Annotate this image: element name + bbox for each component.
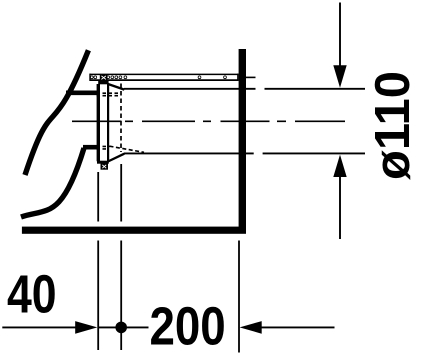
hidden upper edge dashed 2 bbox=[97, 95, 121, 97]
extension line outlet center lower bbox=[120, 241, 122, 351]
connector upper cone line bbox=[108, 84, 124, 90]
rail left end cap bbox=[89, 74, 91, 81]
hidden socket vertical dashed bbox=[120, 84, 122, 153]
extension line wall face bbox=[238, 241, 240, 353]
dia dimension lower arrow line bbox=[339, 177, 341, 240]
extension line outlet left upper bbox=[97, 172, 99, 222]
dim line dot to 200 text bbox=[127, 326, 149, 328]
svg-text:200: 200 bbox=[149, 297, 225, 357]
extension line outlet center upper bbox=[120, 164, 122, 222]
toilet trap curve bbox=[21, 148, 84, 217]
arrowhead 40 bbox=[75, 321, 97, 334]
rail right end cap bbox=[237, 74, 239, 81]
dimension dot terminator bbox=[115, 322, 127, 334]
mounting rail bottom line bbox=[90, 79, 239, 81]
dim line right of arrow bbox=[262, 326, 335, 328]
hidden lower edge dashed 2 bbox=[97, 148, 107, 150]
hidden lower cone dashed bbox=[110, 146, 145, 152]
mounting rail top line bbox=[90, 73, 239, 75]
arrowhead 200 at wall bbox=[240, 321, 262, 334]
connector lower cone line bbox=[108, 154, 124, 162]
pipe bottom line bbox=[124, 152, 365, 154]
svg-text:ø110: ø110 bbox=[366, 71, 420, 180]
lower outlet stub bbox=[83, 145, 99, 150]
hidden lower edge dashed 1 bbox=[97, 145, 110, 147]
toilet rear profile curve bbox=[25, 50, 88, 175]
dia dimension upper arrow line bbox=[339, 3, 341, 66]
dia dimension lower arrowhead bbox=[333, 155, 346, 177]
connector flange right vertical bbox=[107, 84, 109, 161]
rail fixing square with cross bbox=[100, 74, 108, 81]
hidden upper edge dashed 1 bbox=[97, 92, 121, 94]
rail holes bbox=[90, 76, 226, 79]
upper outlet stub bbox=[66, 91, 99, 96]
rail stub right of wall bbox=[246, 76, 256, 78]
pipe top line bbox=[124, 88, 365, 90]
dia dimension upper arrowhead bbox=[333, 65, 346, 88]
bottom fixing square with cross bbox=[101, 164, 109, 170]
svg-text:40: 40 bbox=[7, 265, 57, 325]
extension line outlet left lower bbox=[97, 241, 99, 351]
dim line between extension lines bbox=[98, 326, 116, 328]
flange top cap bbox=[98, 81, 108, 85]
flange bottom bar bbox=[97, 161, 109, 164]
bottom dimension line 40 bbox=[2, 326, 76, 328]
floor line bbox=[22, 227, 246, 234]
connector flange left vertical bbox=[97, 84, 100, 161]
wall bbox=[239, 49, 246, 227]
pipe centerline bbox=[72, 120, 345, 122]
